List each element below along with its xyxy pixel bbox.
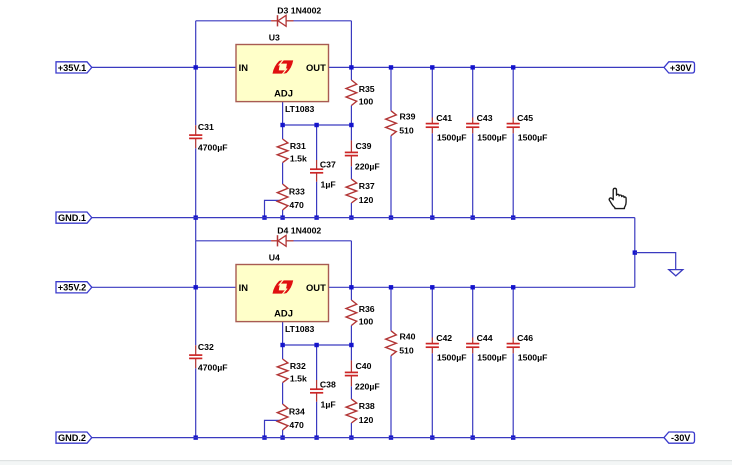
wire C40 to R38 xyxy=(350,386,352,399)
svg-text:1.5k: 1.5k xyxy=(290,153,307,163)
junction GND rail x264 xyxy=(262,435,266,439)
capacitor C41 1500uF xyxy=(426,118,439,134)
svg-text:C38: C38 xyxy=(320,380,336,390)
svg-text:OUT: OUT xyxy=(306,282,326,293)
resistor R33 470 xyxy=(277,184,288,210)
wire OUT to C46 xyxy=(512,287,514,337)
svg-text:220µF: 220µF xyxy=(355,162,380,172)
svg-text:120: 120 xyxy=(359,195,374,205)
port +35V.1 xyxy=(56,62,92,73)
port +35V.2 xyxy=(56,282,92,293)
wire U4 OUT pin to output rail xyxy=(329,286,635,288)
wire input column upper xyxy=(195,21,197,126)
wire R33 to GND xyxy=(282,210,284,218)
svg-text:4700µF: 4700µF xyxy=(198,142,228,152)
wire C42 to GND xyxy=(431,353,433,437)
junction OUT rail x351 xyxy=(349,285,353,289)
wire +35V.2 tag to IN pin xyxy=(92,286,236,288)
svg-text:1500µF: 1500µF xyxy=(477,353,507,363)
wire R35 to ADJ rail xyxy=(350,106,352,141)
junction OUT rail x513 xyxy=(511,65,515,69)
svg-text:1500µF: 1500µF xyxy=(518,133,548,143)
wire U4 ADJ pin down xyxy=(282,322,284,345)
capacitor C39 220uF xyxy=(345,140,358,166)
svg-text:C45: C45 xyxy=(517,113,533,123)
U3 LT logo xyxy=(273,60,294,74)
svg-text:C41: C41 xyxy=(436,113,452,123)
wire ADJ to R31 xyxy=(282,125,284,139)
wire C39 to R37 xyxy=(350,166,352,179)
wire OUT to R39 xyxy=(390,67,392,110)
resistor R34 470 xyxy=(277,404,288,430)
wire ADJ to R32 xyxy=(282,345,284,359)
junction GND rail x513 xyxy=(511,215,515,219)
mouse cursor (hand pointer) xyxy=(609,188,626,208)
svg-text:R39: R39 xyxy=(400,111,416,121)
regulator U4 box xyxy=(236,265,329,322)
wire R31 to R33 xyxy=(282,163,284,184)
junction GND rail x432 xyxy=(430,435,434,439)
svg-text:R31: R31 xyxy=(290,141,306,151)
wire ADJ rail xyxy=(283,124,352,126)
capacitor C43 1500uF xyxy=(466,118,479,134)
wire vertical D4 right down to OUT rail xyxy=(350,241,352,287)
svg-text:C44: C44 xyxy=(477,333,493,343)
svg-text:U3: U3 xyxy=(269,33,280,43)
wire diode loop top D4 left xyxy=(196,240,272,242)
svg-text:4700µF: 4700µF xyxy=(198,362,228,372)
resistor R35 100 xyxy=(346,80,357,106)
svg-text:R40: R40 xyxy=(400,331,416,341)
wire R37 to GND xyxy=(350,203,352,218)
svg-text:R36: R36 xyxy=(359,304,375,314)
wire input column lower xyxy=(195,368,197,437)
wire R39 to GND xyxy=(390,136,392,218)
svg-text:+35V.2: +35V.2 xyxy=(58,283,87,293)
window bottom bar xyxy=(0,461,732,465)
svg-text:C46: C46 xyxy=(517,333,533,343)
svg-text:U4: U4 xyxy=(269,253,280,263)
wire R38 to GND xyxy=(350,423,352,438)
wire R34 wiper stub xyxy=(265,420,282,437)
port +30V xyxy=(664,62,695,73)
junction GND rail x472 xyxy=(471,215,475,219)
wire OUT to C44 xyxy=(472,287,474,337)
svg-text:LT1083: LT1083 xyxy=(285,104,314,114)
capacitor C38 1uF xyxy=(310,380,323,402)
wire C38 top lead xyxy=(316,345,318,380)
junction GND rail x391 xyxy=(389,435,393,439)
wire diode loop top D3 right xyxy=(293,20,351,22)
wire C37 bottom lead xyxy=(316,182,318,218)
wire C44 to GND xyxy=(472,353,474,437)
svg-text:510: 510 xyxy=(399,345,414,355)
junction OUT rail x432 xyxy=(430,285,434,289)
resistor R32 1.5k xyxy=(277,359,288,383)
resistor R38 120 xyxy=(346,399,357,423)
svg-text:R32: R32 xyxy=(290,361,306,371)
svg-text:1N4002: 1N4002 xyxy=(291,6,322,16)
diode D3 1N4002 xyxy=(271,15,293,26)
wire C37 top lead xyxy=(316,125,318,160)
resistor R31 1.5k xyxy=(277,139,288,163)
capacitor C46 1500uF xyxy=(507,338,520,354)
svg-text:IN: IN xyxy=(239,282,249,293)
junction ADJ rail x351 xyxy=(349,343,353,347)
junction GND rail x195 xyxy=(194,215,198,219)
svg-text:1µF: 1µF xyxy=(321,400,336,410)
svg-text:ADJ: ADJ xyxy=(274,307,293,318)
svg-text:C43: C43 xyxy=(477,113,493,123)
capacitor C37 1uF xyxy=(310,160,323,182)
wire GND.2 rail xyxy=(92,437,664,439)
wire R34 to GND xyxy=(282,430,284,438)
svg-text:100: 100 xyxy=(359,96,374,106)
wire R33 wiper stub xyxy=(265,200,282,217)
svg-text:LT1083: LT1083 xyxy=(285,324,314,334)
wire C45 to GND xyxy=(512,133,514,217)
svg-text:C39: C39 xyxy=(356,141,372,151)
port GND.1 xyxy=(56,212,92,223)
junction ADJ rail x316 xyxy=(314,343,318,347)
svg-text:+30V: +30V xyxy=(670,63,693,73)
capacitor C42 1500uF xyxy=(426,338,439,354)
svg-text:R34: R34 xyxy=(289,406,305,416)
capacitor C44 1500uF xyxy=(466,338,479,354)
svg-text:OUT: OUT xyxy=(306,62,326,73)
diode D4 1N4002 xyxy=(271,235,293,246)
svg-text:-30V: -30V xyxy=(671,433,691,443)
svg-text:ADJ: ADJ xyxy=(274,87,293,98)
svg-text:1N4002: 1N4002 xyxy=(291,226,322,236)
resistor R39 510 xyxy=(386,111,397,136)
junction GND rail x282 xyxy=(280,435,284,439)
wire C38 bottom lead xyxy=(316,402,318,438)
port GND.2 xyxy=(56,432,92,443)
resistor R37 120 xyxy=(346,179,357,203)
junction GND rail x282 xyxy=(280,215,284,219)
wire OUT to R36 xyxy=(350,287,352,300)
wire U3 OUT pin to output rail xyxy=(329,66,665,68)
svg-text:R33: R33 xyxy=(289,186,305,196)
wire diode loop top D4 right xyxy=(293,240,351,242)
svg-text:220µF: 220µF xyxy=(355,382,380,392)
resistor R40 510 xyxy=(386,331,397,356)
junction GND rail x472 xyxy=(471,435,475,439)
svg-text:C37: C37 xyxy=(320,160,336,170)
svg-text:R37: R37 xyxy=(359,181,375,191)
junction GND rail x513 xyxy=(511,435,515,439)
wire U3 ADJ pin down xyxy=(282,102,284,125)
wire input column upper xyxy=(195,241,197,345)
wire OUT to C42 xyxy=(431,287,433,337)
junction OUT rail x391 xyxy=(389,65,393,69)
junction OUT rail x513 xyxy=(511,285,515,289)
junction GND rail x351 xyxy=(349,215,353,219)
capacitor C45 1500uF xyxy=(507,118,520,134)
svg-text:R35: R35 xyxy=(359,84,375,94)
svg-text:1500µF: 1500µF xyxy=(477,133,507,143)
svg-text:GND.1: GND.1 xyxy=(58,213,86,223)
junction ADJ rail x351 xyxy=(349,123,353,127)
wire OUT to R40 xyxy=(390,287,392,331)
capacitor C40 220uF xyxy=(345,360,358,386)
port -30V xyxy=(664,432,695,443)
wire ADJ rail xyxy=(283,344,352,346)
wire C41 to GND xyxy=(431,133,433,217)
svg-text:C32: C32 xyxy=(198,342,214,352)
svg-text:C40: C40 xyxy=(356,361,372,371)
capacitor C32 4700uF xyxy=(189,345,202,368)
junction GND rail x195 xyxy=(194,435,198,439)
svg-text:+35V.1: +35V.1 xyxy=(58,63,87,73)
wire OUT to C41 xyxy=(431,67,433,117)
junction OUT rail x391 xyxy=(389,285,393,289)
junction OUT rail x472 xyxy=(471,285,475,289)
wire diode loop top D3 left xyxy=(196,20,272,22)
junction GND rail x316 xyxy=(314,215,318,219)
junction GND rail x391 xyxy=(389,215,393,219)
svg-text:470: 470 xyxy=(289,420,304,430)
wire R32 to R34 xyxy=(282,383,284,404)
wire OUT to R35 xyxy=(350,67,352,80)
junction ground branch xyxy=(633,250,637,254)
wire GND.1 down to U4 output rail xyxy=(634,218,636,288)
junction OUT rail x472 xyxy=(471,65,475,69)
wire input column lower xyxy=(195,148,197,241)
wire R36 to ADJ rail xyxy=(350,326,352,361)
junction GND rail x316 xyxy=(314,435,318,439)
svg-text:D4: D4 xyxy=(277,226,288,236)
U4 LT logo xyxy=(273,280,294,294)
capacitor C31 4700uF xyxy=(189,125,202,148)
wire OUT to C43 xyxy=(472,67,474,117)
junction GND rail x351 xyxy=(349,435,353,439)
svg-text:IN: IN xyxy=(239,62,249,73)
svg-text:C31: C31 xyxy=(198,122,214,132)
resistor R36 100 xyxy=(346,300,357,326)
svg-text:C42: C42 xyxy=(436,333,452,343)
wire OUT to C45 xyxy=(512,67,514,117)
svg-text:D3: D3 xyxy=(277,6,288,16)
svg-text:510: 510 xyxy=(399,125,414,135)
wire GND.1 rail xyxy=(92,217,635,219)
junction ADJ rail x282 xyxy=(280,123,284,127)
svg-text:120: 120 xyxy=(359,415,374,425)
svg-text:1500µF: 1500µF xyxy=(437,133,467,143)
junction ADJ rail x316 xyxy=(314,123,318,127)
junction OUT rail x432 xyxy=(430,65,434,69)
wire C43 to GND xyxy=(472,133,474,217)
svg-text:R38: R38 xyxy=(359,401,375,411)
regulator U3 box xyxy=(236,45,329,102)
svg-text:1.5k: 1.5k xyxy=(290,373,307,383)
junction OUT rail x351 xyxy=(349,65,353,69)
svg-text:1µF: 1µF xyxy=(321,180,336,190)
wire ground branch xyxy=(635,253,676,270)
junction input rail x196 xyxy=(194,65,198,69)
svg-text:1500µF: 1500µF xyxy=(518,353,548,363)
ground symbol xyxy=(669,270,683,276)
wire vertical D3 right down to OUT rail xyxy=(350,21,352,68)
svg-text:100: 100 xyxy=(359,316,374,326)
junction input rail x196 xyxy=(194,285,198,289)
svg-text:GND.2: GND.2 xyxy=(58,433,86,443)
wire C46 to GND xyxy=(512,353,514,437)
wire +35V.1 tag to IN pin xyxy=(92,66,236,68)
wire R40 to GND xyxy=(390,356,392,438)
svg-text:470: 470 xyxy=(289,200,304,210)
junction GND rail x264 xyxy=(262,215,266,219)
junction ADJ rail x282 xyxy=(280,343,284,347)
junction GND rail x432 xyxy=(430,215,434,219)
svg-text:1500µF: 1500µF xyxy=(437,353,467,363)
